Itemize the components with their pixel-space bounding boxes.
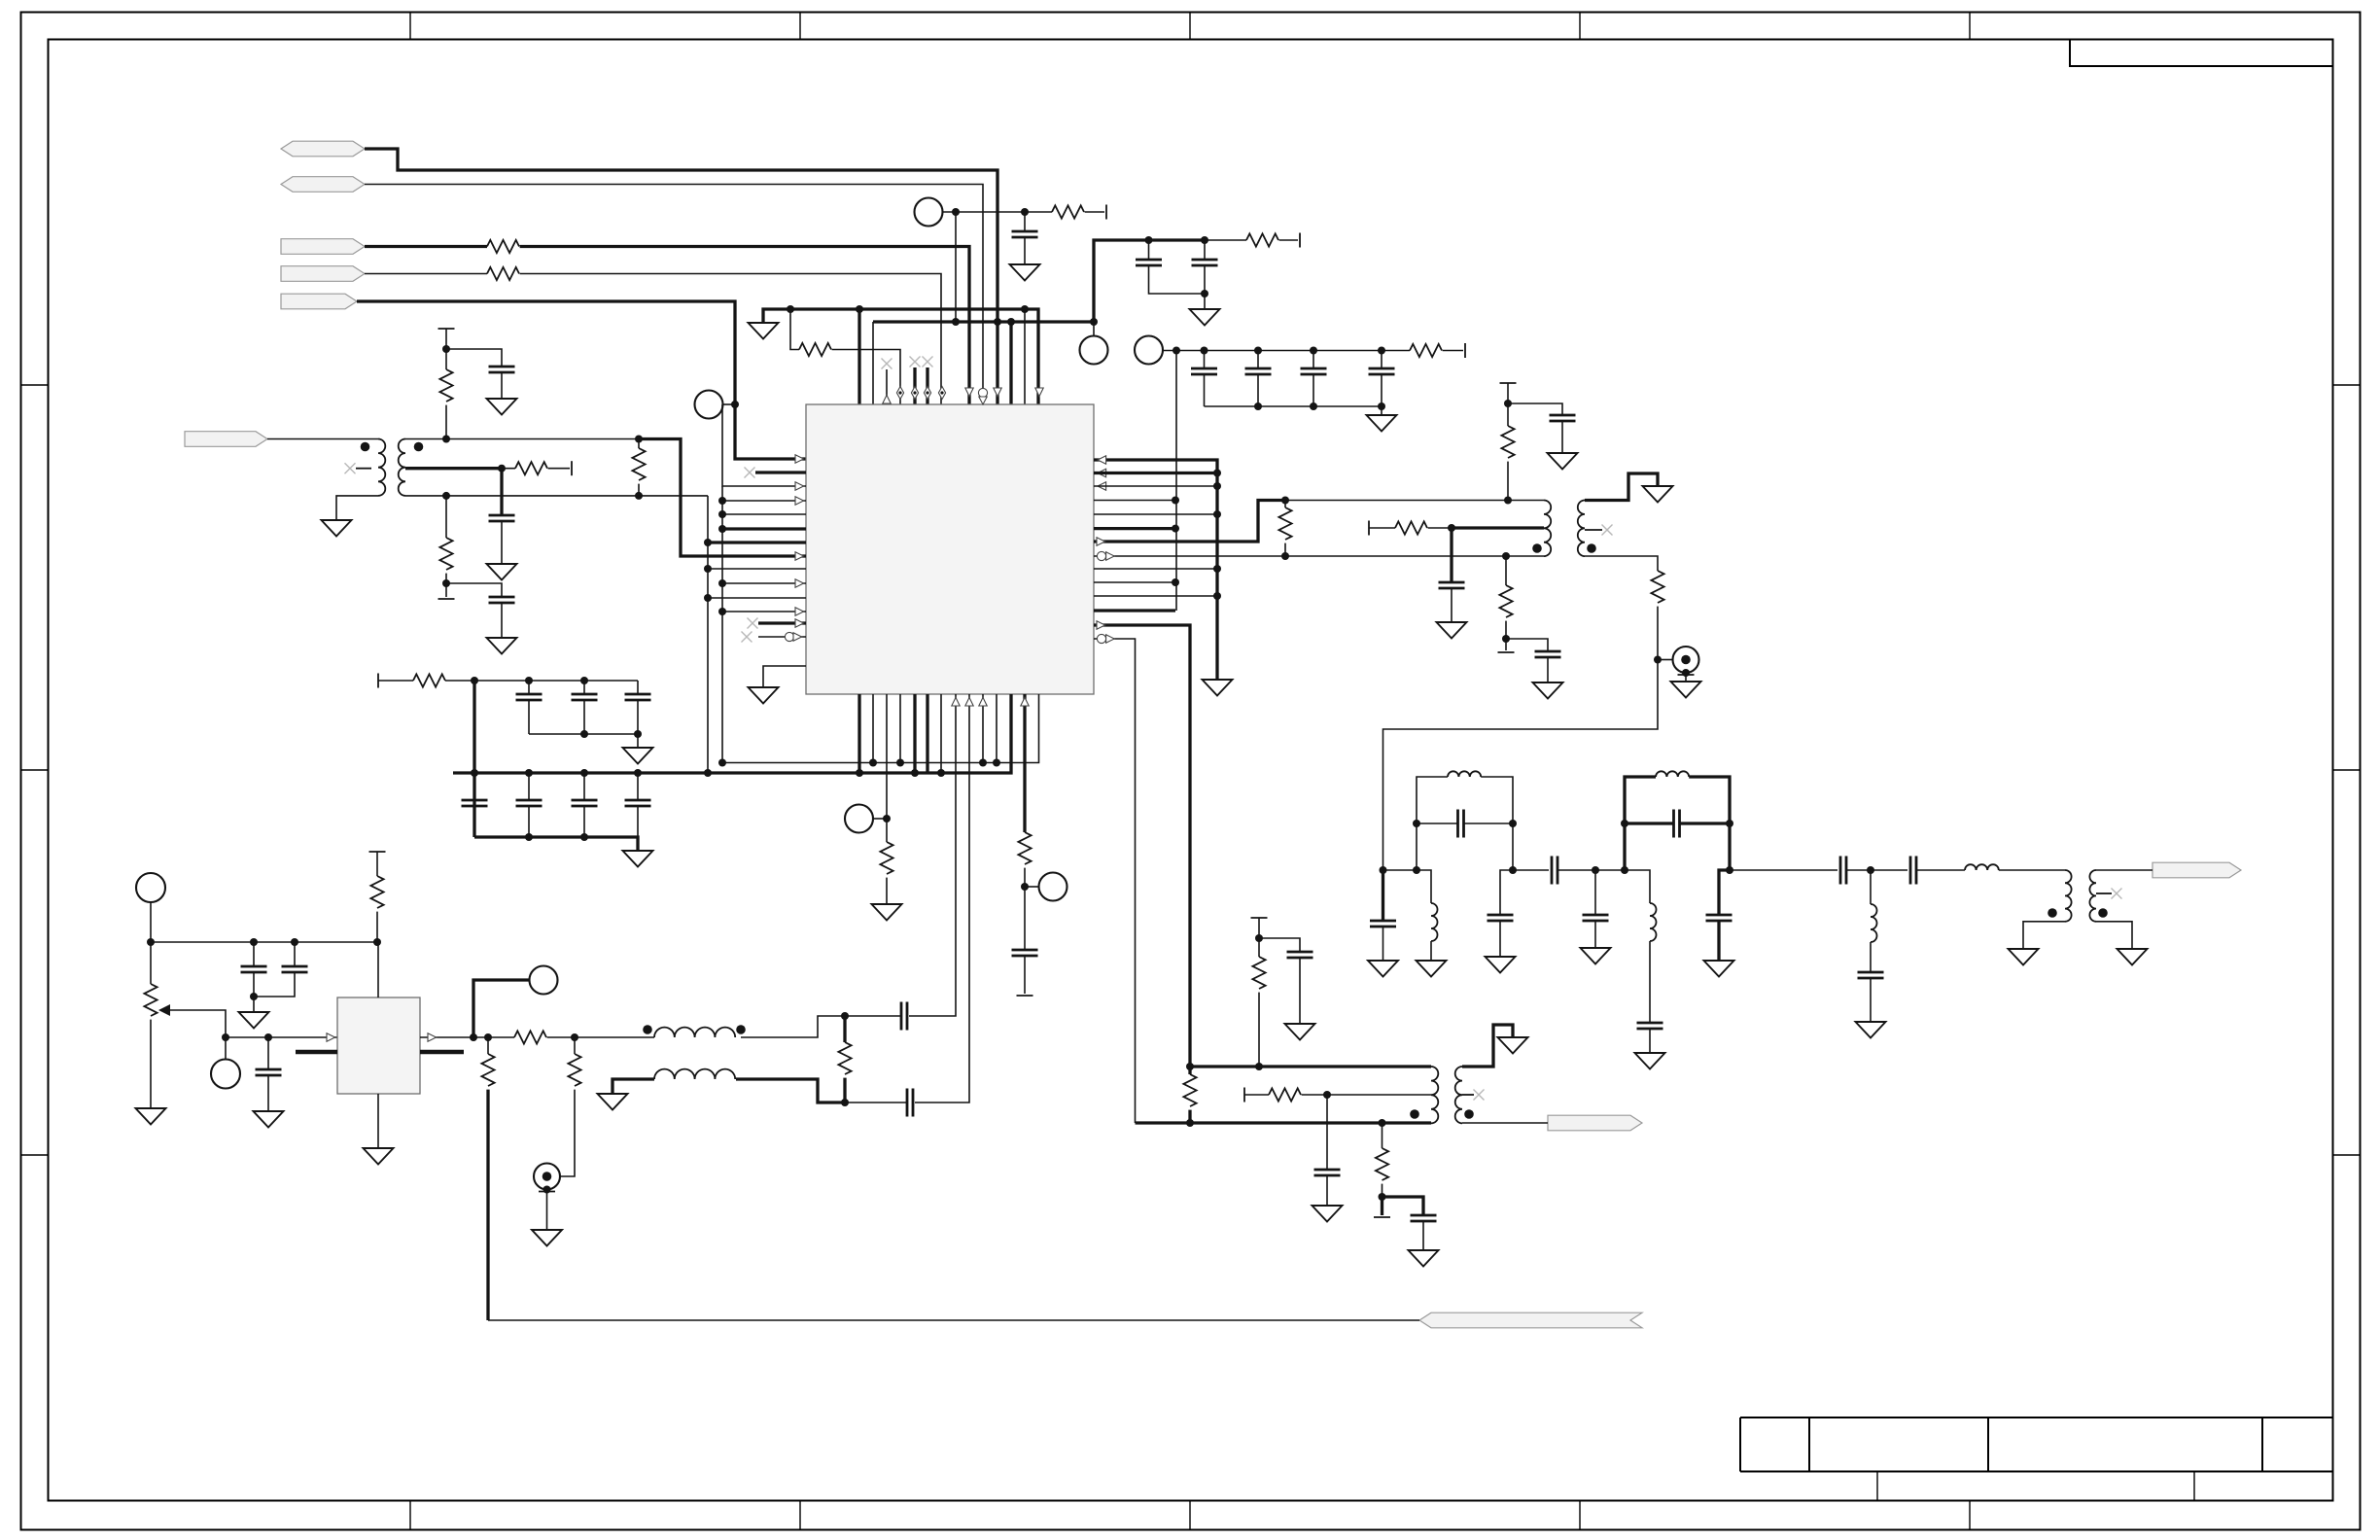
terminator bar 1054 [1017,995,1033,997]
resistor R459t [445,349,447,369]
wire Rv2 down to bottom bus [486,1090,489,1320]
pin 628 thick [1094,609,1175,612]
terminator bar below [438,598,455,600]
T1 primary center tap NC [356,468,371,470]
zone tick bottom 1 [409,1501,411,1530]
bus x728 from T1 bottom rail [707,496,709,773]
wire ground rail 318 [763,309,1038,404]
ground Cv3 [254,1111,284,1128]
shunt inductor LF2 [1650,903,1657,941]
junction dot R501 [484,1033,492,1041]
zone tick right 3 [2333,1154,2361,1156]
pin stub x1054 [1024,309,1026,404]
T4 primary winding [1431,1067,1438,1123]
zone tick bottom 2 [799,1501,801,1530]
resistor R1322 [1281,497,1289,505]
T2 phase dots [1532,543,1542,553]
capacitor C-T4ct [1326,1095,1328,1170]
junction dots rail784 [718,759,726,767]
coax jack J1 [1658,659,1673,661]
pin drop 954 thick [926,694,928,773]
resistor R-bankA [413,674,445,686]
junction dot flag5/TPC [731,401,739,408]
port flag P7 (T5 output right) [2152,862,2241,878]
pin arrow 997b [965,697,973,706]
junction dots T4 top rail [1186,1063,1194,1070]
wire TP-218 net [943,211,1053,213]
capacitor CB1 [1204,351,1206,369]
wire bar down [445,329,447,349]
zone tick left 1 [21,384,49,386]
pin drop 1025 [996,694,997,763]
wire R912 to ground [886,878,888,904]
resistor R1421 [1376,1148,1388,1180]
junction dot 459/359 [442,345,450,353]
T4 secondary top to step ground [1462,1025,1513,1067]
zone tick right 1 [2333,384,2361,386]
coax J1 shield [1682,669,1690,677]
junction shunt LC [1867,866,1874,874]
wire Rv4 to coax [560,1090,575,1176]
wire TP-H [473,980,530,1037]
wire to bar [1443,350,1463,352]
T2 secondary bottom lead [1585,556,1658,571]
wire to junction [1024,868,1026,887]
resistor R1295 [1258,938,1260,957]
T2 top rail [1285,500,1544,502]
T4 secondary center NC [1462,1094,1474,1096]
capacitor CF4 [1637,1023,1663,1029]
title block vertical divider 2 [1987,1417,1989,1472]
junction filter input [1380,866,1387,874]
tank1 top right [1481,777,1513,870]
resistor R1549 [1499,585,1512,617]
pin 543.6 thick [1094,527,1175,530]
junction dot G [1504,400,1512,407]
junction dot T2out [1654,656,1662,664]
ground CF3 [1581,948,1611,964]
junction dot Cv3 [264,1033,272,1041]
resistor RG vertical [1507,403,1509,426]
T4 secondary winding [1455,1067,1462,1123]
wire to junction 600 [445,574,447,597]
series capacitor CS1 [1513,869,1549,871]
capacitor CA2 [1204,240,1206,260]
supply rail 247 [1094,240,1205,322]
arrow pin 473 [1098,456,1106,464]
terminator bar 1421 [1381,1197,1383,1215]
wire to cap 1592 [1506,639,1548,651]
junction dots bankA [471,677,478,684]
pin 529 [722,513,806,515]
input arrow osc [327,1033,335,1041]
resistor R459 [439,538,452,570]
capacitor C459 [489,597,515,603]
T4 bottom rail thick [1136,1121,1432,1124]
pin arrow 629 [795,608,804,615]
IC U1 body [806,404,1094,694]
T2 bottom rail [1285,555,1544,557]
pin 514.5 [1094,500,1175,502]
junction dot R591 [571,1033,578,1041]
T5 phase dot secondary [2098,908,2108,918]
wire R359 to pin 926 [832,350,900,405]
wire to cap 1337 [1259,938,1300,952]
capacitor CG [1550,415,1576,421]
junction dots CB rail [1254,402,1262,410]
terminator bar cluster G [1500,382,1517,384]
junction dot 1054 [1021,883,1029,891]
series inductor LS1 [1965,864,1999,870]
ground balun [598,1094,628,1110]
NC pin 641 [748,618,758,629]
capacitor C1337 [1287,952,1313,958]
arrow+circle pin 572 [1097,551,1105,560]
bank A terminator bar [377,674,379,688]
wire to junction [1505,621,1507,639]
junction dot center tap [498,465,506,472]
ground CA [1190,309,1220,326]
arrow pin 643 [1097,621,1105,629]
port flag P5 (output) [281,294,357,309]
port flag P3 (output) [281,239,365,255]
tank2 inductor LT2 [1656,771,1689,777]
tank2 cap row [1621,820,1628,827]
pin 500 wire [722,404,806,486]
testpoint TP-B [1135,336,1163,365]
balun top inductor [654,1028,735,1037]
ground T4 sec top [1498,1037,1528,1054]
series capacitor CS3 [1871,869,1907,871]
terminator bar 247 [1299,233,1301,248]
resistor R3a [487,240,519,253]
T4 center tap resistor+bar [1243,1088,1245,1102]
wire bar down [1258,918,1260,938]
wire flag P4 net cont [520,274,941,405]
capacitor CB3 [1312,351,1314,369]
coax jack J2 [534,1164,560,1190]
capacitor C218 [1024,212,1026,231]
shunt resistor Rv4 [574,1037,576,1054]
pin drop 912 TP/R chain [886,694,888,842]
ground C459t [487,399,517,415]
resistor R1224 between rails [1188,1067,1191,1074]
ground IC left [749,687,779,704]
capacitor C-T2ct [1450,528,1452,582]
ground CF1 [1368,961,1398,977]
T5 secondary top lead to flag P7 [2096,869,2152,871]
junction dots TP218 net [952,208,960,216]
circle pin 657 [1097,634,1105,643]
resistor R361 [1410,344,1442,357]
T2 secondary center tap NC [1585,529,1602,531]
ground C-T2ct [1437,622,1467,639]
pin 643 thick drops to T4 [1094,625,1190,1067]
tank1 inductor LT1 [1448,771,1481,777]
terminator bar ct [571,461,573,475]
balun phase dots [643,1025,652,1034]
capacitor CdB1 [473,773,475,800]
junction dot T4 ct [1323,1091,1331,1099]
wire to cap 1464 [1382,1197,1424,1215]
NC pin 941 [910,357,921,367]
resistor R-T2out [1651,571,1663,603]
capacitor Cv3 [267,1037,269,1069]
title block row2 divider 1 [1876,1472,1878,1501]
resistor R247 [1246,233,1278,246]
junction dots bankB bottom [525,833,533,841]
balun bottom inductor [654,1069,735,1079]
IC top pin arrows [896,387,903,400]
T1 secondary center tap [405,467,502,470]
ground T5 primary [2009,949,2039,965]
reference rail 784 [722,694,1039,763]
RC over T1: terminator bar 459 [438,328,455,330]
terminator bar Vtop [369,851,386,853]
junction node B [841,1099,849,1106]
resistor R218 [1052,205,1084,218]
wire to junction ct [1302,1094,1431,1096]
junction dots rail331 [994,318,1001,326]
wire drop x983 [955,212,957,322]
wire pin stub x1040 [1009,322,1012,404]
pin arrow 515 [795,497,804,505]
supply link x488 [472,681,475,837]
bank A top rail [445,680,638,682]
zone tick left 2 [21,769,49,771]
pin drop 968 [940,694,942,773]
pin 473 thick to gnd bus [1094,460,1217,680]
wire CB bottom rail [1205,405,1382,407]
junction tank2 right [1726,866,1733,874]
pin drop 1054 thick chain [1023,694,1026,832]
pin drop 926 [899,694,901,763]
T4 phase dots [1410,1109,1419,1119]
ground J2 [532,1230,562,1246]
pin 544 thick [722,527,806,530]
T5 secondary center tap NC [2096,892,2112,894]
wire flag P6 to T1 [267,438,378,440]
terminator bar 1295 [1251,917,1268,919]
junction wiper/main [222,1033,229,1041]
main line seg1 [1383,870,1432,903]
wire LS1 to T5 [1999,869,2065,871]
T5 primary bottom lead [2023,922,2065,949]
branch x459 resistor to ground cluster [445,496,447,538]
junction dots rail795 [471,769,478,777]
pin 500r [1094,485,1217,487]
balun bottom left to ground [612,1079,654,1094]
ground Cct [487,564,517,580]
tank2 left leg thick [1625,777,1656,870]
port flag P4 (output) [281,266,365,282]
shunt capacitor CF3 [1594,870,1596,915]
T1 secondary bottom rail [405,495,708,497]
pin 558 thick [708,541,806,543]
capacitor CdA2 [583,681,585,694]
wire to junction [1657,607,1659,660]
zone tick bottom 3 [1189,1501,1191,1530]
junction dots rail247 [1145,236,1153,244]
wire TP-B rail 361 [1163,350,1410,352]
junction dot 1295 [1255,934,1263,942]
zone tick right 2 [2333,769,2361,771]
transformer T1 secondary winding [399,439,405,496]
capacitor C1592 [1535,651,1561,657]
shunt capacitor CF1 [1382,870,1384,921]
T4 secondary bottom to flag P8 [1462,1122,1548,1124]
wire center tap to resistor [502,468,515,470]
potentiometer wiper [158,1004,170,1016]
potentiometer RV1 [150,942,152,984]
pin circle 655 [785,632,793,641]
zone tick top 2 [799,13,801,40]
node rail 331 [873,320,1094,323]
capacitor Cct [500,469,503,515]
wire bar to R [378,680,413,682]
resistor Rct [515,462,547,474]
osc gnd bars [296,1050,337,1055]
power rail 795 [453,694,1011,773]
wire rail247 to R [1205,239,1246,241]
shunt inductor LF1 [1431,903,1438,941]
ground LF1 [1417,961,1447,977]
ground R912 [872,904,902,921]
pin 657 drops to T4 bottom [1094,639,1136,1123]
pin arrow 983b [952,697,960,706]
junction dot 1421 [1379,1193,1386,1201]
transformer T1 primary winding [378,439,385,496]
wire flag P3 net cont [520,247,969,405]
series capacitor Cmix2 [907,1089,913,1117]
wire flag P4 net [365,273,487,275]
ground C1592 [1533,682,1563,699]
output arrow osc [428,1033,437,1041]
supply rail 969 [151,941,377,943]
wire junction to cap516 [446,349,502,367]
IC bottom-left ground [763,666,806,687]
wire to bar [1279,239,1298,241]
junction dot CA bottoms [1201,290,1208,297]
port flag P6 (input to T1) [185,432,267,447]
T1 primary bottom lead to ground [336,496,378,520]
pin 529r [1094,513,1217,515]
wire flag P2 net [365,185,983,405]
capacitor C1054 [1024,887,1026,950]
shunt resistor Rv2 [487,1037,489,1054]
pin drop 997 long (mixer Q) [915,694,969,1102]
junction dots rail318 [787,305,794,313]
T5 primary winding [2065,870,2072,922]
pin arrow 600 [795,579,804,587]
wire branch R359 [790,309,799,350]
resistor Rv1 [376,852,378,876]
T5 secondary winding [2089,870,2096,922]
main line seg2 [1595,870,1650,903]
wire LF2 to cap [1649,941,1651,1023]
pin 599r [1094,581,1175,583]
T1 phase dot secondary [414,442,424,452]
pin 600 [722,582,806,584]
resistor R1054 [1018,832,1031,864]
title block row2 divider 2 [2193,1472,2195,1501]
branch R1421 [1382,1123,1383,1148]
T2 primary center tap [1452,526,1544,529]
series capacitor Cmix1 [901,1002,907,1031]
tank2 top right thick [1689,777,1730,870]
testpoint TP-E [1025,886,1039,888]
wire flag P1 net [365,149,997,404]
ground C1337 [1285,1024,1315,1040]
zone tick top 5 [1969,13,1971,40]
NC pin 655 [742,632,752,643]
wire node B to balun bottom [736,1079,845,1102]
osc bottom pin [377,1094,379,1148]
wire to terminator [1085,211,1104,213]
capacitor CdB3 [583,773,585,800]
ground CF5 [1704,961,1734,977]
wire TP-F down [150,902,152,942]
capacitor CB2 [1257,351,1259,369]
resistor R4a [487,267,519,280]
ground C218 [1010,264,1040,281]
wire to junction [1428,527,1452,529]
capacitor CdA1 [528,681,530,694]
junction dots T4 bottom rail [1186,1119,1194,1127]
ground C1464 [1409,1250,1439,1267]
zone tick left 3 [21,1154,49,1156]
T2 secondary winding [1578,501,1585,557]
T1 secondary top rail [405,438,681,440]
pin arrow 572 [795,552,804,560]
title block top edge [1740,1417,2333,1472]
testpoint TP-G [211,1060,240,1089]
tank1 cap row [1413,820,1420,827]
junction dots bankA bottom [580,730,588,738]
T4 top rail thick [1190,1065,1431,1067]
resistor Rmix bridge [843,1016,846,1042]
ground CF2 [1486,957,1516,973]
zone tick bottom 5 [1969,1501,1971,1530]
oscillator X1 body [337,997,420,1094]
pin drop 883 thick [857,694,860,773]
capacitor CdA3 [637,681,639,694]
ground T5 secondary [2117,949,2148,965]
junction dot ct [1448,524,1455,532]
ground CB [1367,415,1397,432]
NC pin 486 [745,468,755,478]
ground bankB [623,851,653,867]
ground osc [364,1148,394,1165]
zone tick top 1 [409,13,411,40]
NC pin 912 [882,359,892,369]
terminator bar + resistor ct [1368,521,1370,536]
arrow pin 557 [1097,538,1105,545]
pin drop 1011 [982,694,984,763]
bank A bottom rail [529,734,638,748]
net rail450 to pin 572 [639,439,806,557]
osc top pin [377,942,379,997]
port flag P8 (T4 output) [1548,1115,1642,1131]
ground C459 [487,638,517,654]
title block vertical divider 3 [2261,1417,2263,1472]
wire node A to balun top [741,1016,845,1037]
junction dots top rail [442,436,450,443]
zone tick top 4 [1579,13,1581,40]
vco line left [226,1036,337,1038]
resistor R-T4ct [1269,1088,1301,1101]
bus drop x1210 [1175,351,1177,612]
